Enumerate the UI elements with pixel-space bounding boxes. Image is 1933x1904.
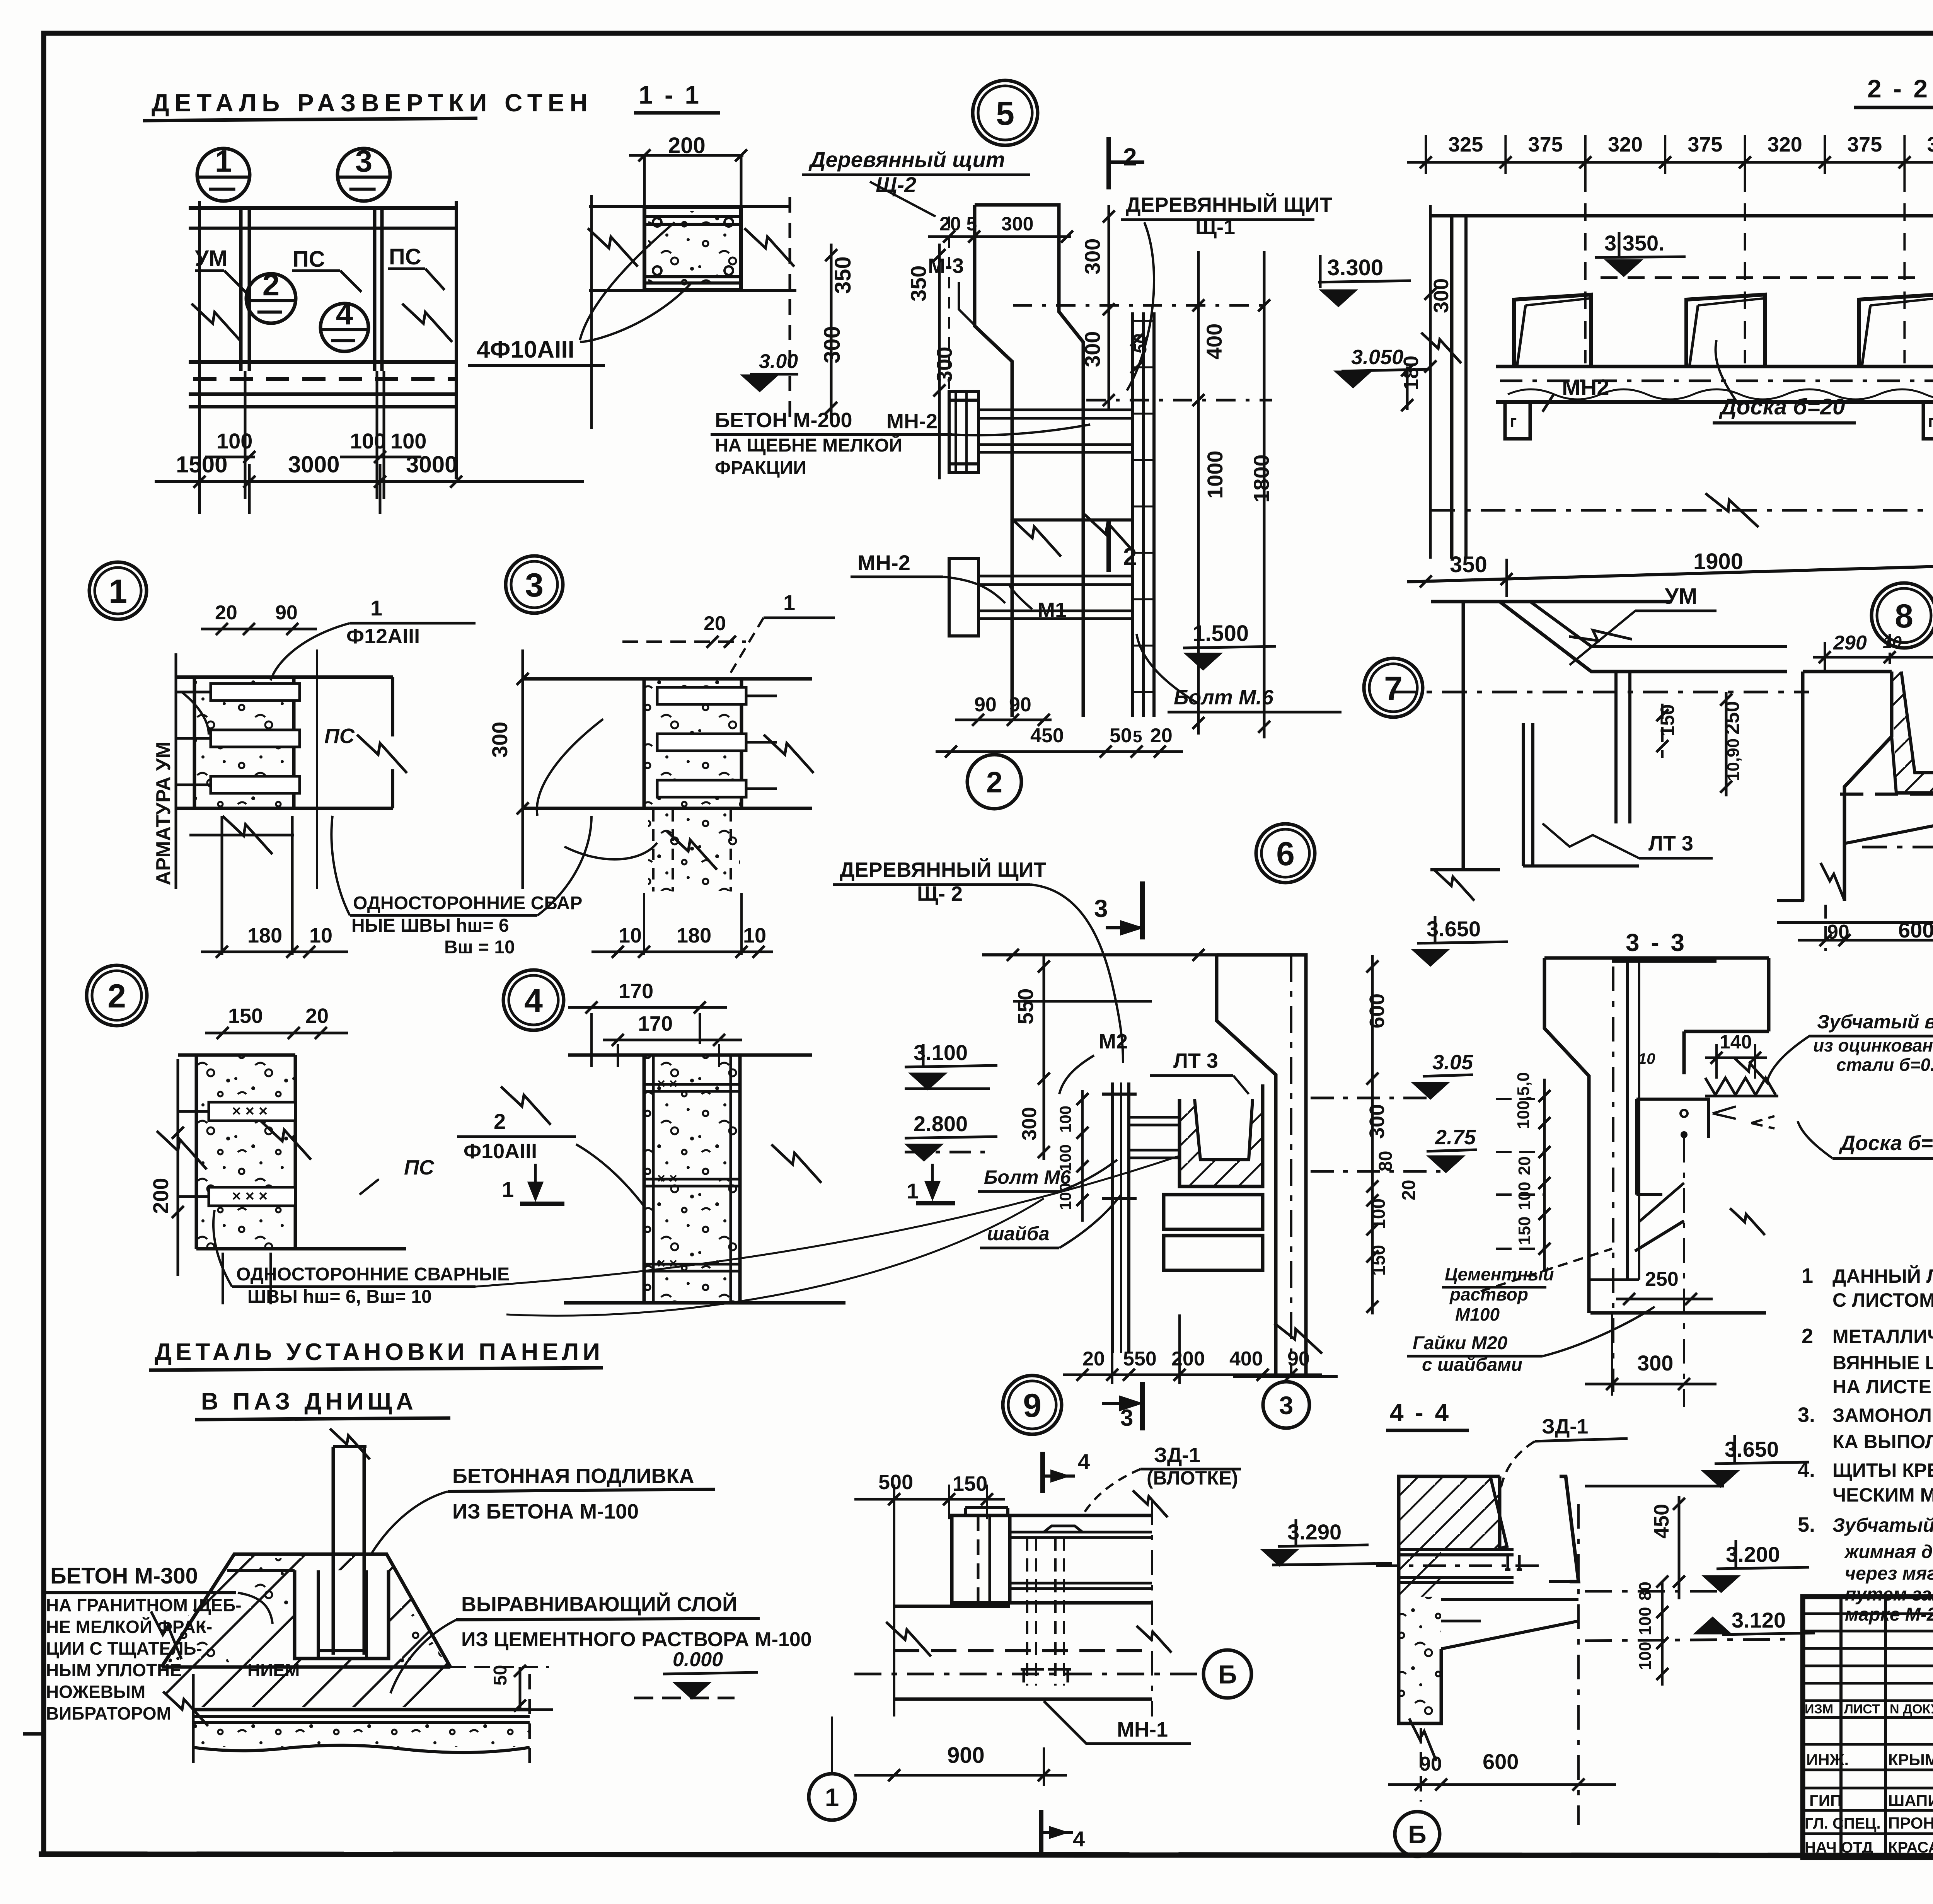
svg-text:2.800: 2.800 <box>914 1111 968 1136</box>
svg-text:Зубчатый водослив и: Зубчатый водослив и <box>1832 1514 1933 1536</box>
foundation slab band <box>193 1708 530 1711</box>
svg-text:ПС: ПС <box>324 724 355 748</box>
svg-text:ЧЕСКИМ МАРКАМ НА БОЛТАХ: ЧЕСКИМ МАРКАМ НА БОЛТАХ <box>1832 1484 1933 1506</box>
svg-text:1500: 1500 <box>176 452 227 477</box>
axis bubble 4 (plan) <box>320 303 368 351</box>
svg-text:5: 5 <box>996 95 1014 132</box>
detail circle 2 (section mark) <box>967 755 1021 809</box>
svg-text:ЗАМОНОЛИЧИВАНИЕ ТОРЦОВ ЛОТ-: ЗАМОНОЛИЧИВАНИЕ ТОРЦОВ ЛОТ- <box>1832 1405 1933 1426</box>
svg-text:7: 7 <box>1384 670 1403 707</box>
svg-text:300: 300 <box>1430 278 1453 313</box>
svg-text:ВИБРАТОРОМ: ВИБРАТОРОМ <box>46 1703 171 1723</box>
svg-text:550: 550 <box>1013 989 1038 1024</box>
detail circle 5 <box>973 80 1038 145</box>
svg-text:300: 300 <box>1080 331 1105 367</box>
detail3 joint strip concrete <box>644 680 741 808</box>
svg-text:× × ×: × × × <box>232 1103 268 1120</box>
section mark 4 top <box>1040 1452 1045 1493</box>
svg-text:3.050: 3.050 <box>1351 346 1403 369</box>
detail1 splice plates <box>211 684 300 701</box>
svg-text:КА ВЫПОЛНЯТЬ БЕТОНОМ М-200: КА ВЫПОЛНЯТЬ БЕТОНОМ М-200 <box>1832 1431 1933 1452</box>
svg-text:3.100: 3.100 <box>914 1040 968 1065</box>
detail1 ПС panel rect <box>294 807 393 810</box>
svg-text:ДЕРЕВЯННЫЙ ЩИТ: ДЕРЕВЯННЫЙ ЩИТ <box>840 858 1047 881</box>
svg-text:АРМАТУРА УМ: АРМАТУРА УМ <box>152 741 175 885</box>
detail4 leader from label <box>576 1144 644 1206</box>
detail8 channel left wall hatched <box>1892 672 1933 793</box>
detail2 joint strip concrete <box>196 1055 295 1249</box>
1-1 side extension lines <box>589 205 644 208</box>
svg-text:350: 350 <box>830 256 856 294</box>
svg-text:2: 2 <box>494 1109 506 1134</box>
detail4 break marks <box>771 1144 821 1183</box>
svg-text:300: 300 <box>1018 1107 1041 1140</box>
detail1 joint strip concrete <box>194 677 294 808</box>
svg-text:2: 2 <box>1123 543 1137 571</box>
svg-text:Деревянный щит: Деревянный щит <box>808 147 1005 172</box>
svg-text:ИЗ БЕТОНА М-100: ИЗ БЕТОНА М-100 <box>452 1500 639 1523</box>
svg-text:100: 100 <box>350 429 386 453</box>
svg-text:600: 600 <box>1898 918 1933 942</box>
svg-text:140: 140 <box>1720 1031 1752 1053</box>
axis bubble 1 (plan) <box>197 148 250 201</box>
4-4 water stop trapezoid <box>1485 1476 1507 1549</box>
svg-text:3000: 3000 <box>406 452 457 477</box>
svg-text:170: 170 <box>638 1012 673 1035</box>
svg-text:180: 180 <box>247 924 282 947</box>
svg-text:МН-2: МН-2 <box>886 410 938 433</box>
svg-text:20: 20 <box>1082 1348 1105 1370</box>
4-4 axis dash through boards <box>1376 1565 1546 1567</box>
svg-text:90: 90 <box>275 602 298 624</box>
svg-text:1: 1 <box>370 596 382 620</box>
svg-text:3.05: 3.05 <box>1432 1051 1473 1074</box>
svg-text:200: 200 <box>148 1178 173 1214</box>
svg-text:2: 2 <box>1123 143 1137 171</box>
detail2 lower extension <box>222 1253 224 1304</box>
3-3 bracket <box>1636 1099 1708 1138</box>
svg-text:20: 20 <box>1150 724 1173 747</box>
detail circle 2 <box>87 965 147 1026</box>
svg-text:ЛИСТ: ЛИСТ <box>1844 1702 1880 1716</box>
svg-text:УМ: УМ <box>195 246 227 271</box>
detail4 joint strip with boards <box>644 1055 740 1303</box>
svg-text:1 - 1: 1 - 1 <box>639 80 701 109</box>
detail circle 6 <box>1256 824 1315 883</box>
2-2 top dimension row <box>1407 161 1933 164</box>
svg-text:1: 1 <box>502 1177 514 1202</box>
svg-text:4.: 4. <box>1798 1458 1815 1481</box>
detail5 break in wall <box>1011 518 1061 556</box>
svg-text:шайба: шайба <box>987 1223 1050 1244</box>
4-4 wall hatched block <box>1399 1476 1500 1597</box>
svg-text:ИЗ ЦЕМЕНТНОГО РАСТВОРА М-100: ИЗ ЦЕМЕНТНОГО РАСТВОРА М-100 <box>461 1628 812 1651</box>
wall development plan outline <box>189 206 456 210</box>
foundation slab sides <box>192 1674 195 1763</box>
svg-text:Доска б=20: Доска б=20 <box>1718 394 1845 419</box>
3-3 right wall band <box>1768 958 1769 1313</box>
svg-text:М1: М1 <box>1038 598 1067 622</box>
svg-text:НА ЛИСТЕ КЖ- 10.: НА ЛИСТЕ КЖ- 10. <box>1832 1376 1933 1398</box>
svg-text:3: 3 <box>525 567 544 604</box>
svg-text:6: 6 <box>1276 835 1295 873</box>
svg-text:250: 250 <box>1645 1268 1679 1290</box>
detail7 wall corner outline <box>1431 600 1672 603</box>
svg-text:ИНЖ.: ИНЖ. <box>1806 1751 1849 1769</box>
detail8 break zigzag left bottom <box>1820 863 1844 900</box>
svg-text:НИЕМ: НИЕМ <box>247 1660 300 1680</box>
4-4 boards under wall <box>1399 1548 1514 1551</box>
svg-text:2.75: 2.75 <box>1435 1126 1476 1149</box>
1-1 break marks <box>588 228 638 266</box>
svg-text:ШВЫ hш= 6, Вш= 10: ШВЫ hш= 6, Вш= 10 <box>247 1287 432 1307</box>
svg-text:1: 1 <box>1802 1264 1813 1287</box>
svg-text:500: 500 <box>878 1471 913 1494</box>
svg-text:НА ГРАНИТНОМ ЩЕБ-: НА ГРАНИТНОМ ЩЕБ- <box>46 1595 242 1615</box>
axis line Б through detail9 <box>854 1673 1202 1676</box>
fold mark left edge <box>23 1732 44 1736</box>
detail6 formwork panel verticals <box>1111 1082 1114 1353</box>
svg-text:БЕТОННАЯ ПОДЛИВКА: БЕТОННАЯ ПОДЛИВКА <box>452 1464 694 1488</box>
svg-text:г: г <box>1928 412 1933 431</box>
svg-text:100: 100 <box>390 429 426 453</box>
4-4 bolts small <box>1507 1555 1509 1570</box>
detail2 slots with welds <box>209 1102 295 1121</box>
svg-text:4: 4 <box>524 982 543 1019</box>
svg-text:1: 1 <box>783 590 795 615</box>
2-2 board band hatched (доска) <box>1496 365 1933 368</box>
3-3 vertical panel lines <box>1626 961 1629 1280</box>
title block header row Изм Лист <box>1803 1716 1933 1719</box>
plan break marks <box>191 303 241 342</box>
detail9 right dash-dot extension <box>1151 1500 1153 1716</box>
svg-text:100: 100 <box>1636 1607 1655 1635</box>
detail4 top line <box>568 1053 812 1057</box>
detail3 break marks <box>764 735 813 773</box>
svg-text:300: 300 <box>1080 239 1105 274</box>
svg-text:400: 400 <box>1202 324 1226 360</box>
svg-text:М100: М100 <box>1455 1304 1500 1324</box>
svg-text:Ф12АIII: Ф12АIII <box>346 625 420 648</box>
svg-text:ФРАКЦИИ: ФРАКЦИИ <box>715 458 806 478</box>
svg-text:ГЛ. СПЕЦ.: ГЛ. СПЕЦ. <box>1805 1815 1881 1832</box>
svg-text:4 - 4: 4 - 4 <box>1390 1399 1451 1427</box>
detail3 leader curves <box>537 719 603 816</box>
svg-text:УМ: УМ <box>1665 584 1697 609</box>
svg-text:Цементный: Цементный <box>1445 1264 1554 1284</box>
svg-text:200: 200 <box>1171 1348 1205 1370</box>
axis bubble 2 (plan) <box>246 274 296 323</box>
foundation leader break <box>151 1611 182 1659</box>
detail2 bottom line <box>196 1247 406 1251</box>
detail4 horizontal joints <box>644 1083 740 1086</box>
3-3 sawtooth weir <box>1705 1078 1776 1095</box>
svg-text:Б: Б <box>1408 1820 1426 1849</box>
svg-text:МЕТАЛЛИЧЕСКИЕ МАРКИ И ДЕРЕ-: МЕТАЛЛИЧЕСКИЕ МАРКИ И ДЕРЕ- <box>1832 1326 1933 1347</box>
svg-text:150: 150 <box>953 1472 987 1495</box>
title block left rows thin <box>1803 1613 1933 1615</box>
svg-text:80: 80 <box>1376 1151 1396 1171</box>
svg-text:375: 375 <box>1528 133 1563 156</box>
svg-text:3: 3 <box>355 144 373 178</box>
svg-text:НОЖЕВЫМ: НОЖЕВЫМ <box>46 1682 145 1702</box>
svg-text:2 - 2: 2 - 2 <box>1867 74 1930 103</box>
plan vertical joint lines <box>239 208 243 371</box>
foundation hatch between mound and slab <box>166 1668 445 1707</box>
svg-text:3000: 3000 <box>288 452 339 477</box>
title block left small columns <box>1839 1597 1843 1858</box>
svg-text:10: 10 <box>619 924 642 947</box>
svg-text:3.650: 3.650 <box>1725 1437 1779 1461</box>
svg-text:100: 100 <box>216 429 252 453</box>
svg-text:320: 320 <box>1608 133 1643 156</box>
axis circle Б (4-4) <box>1395 1812 1440 1856</box>
2-2 formwork panels row <box>1514 295 1591 366</box>
section cut 3 (upper) <box>1140 881 1145 939</box>
svg-text:ИЗМ: ИЗМ <box>1805 1702 1833 1716</box>
svg-text:стали б=0.6: стали б=0.6 <box>1836 1055 1933 1075</box>
svg-text:180: 180 <box>677 924 711 947</box>
svg-text:8: 8 <box>1895 598 1913 635</box>
svg-text:ЛТ 3: ЛТ 3 <box>1173 1049 1218 1072</box>
svg-text:10: 10 <box>743 924 766 947</box>
detail8 sloping floor <box>1846 816 1933 843</box>
svg-text:900: 900 <box>947 1743 985 1768</box>
svg-text:М2: М2 <box>1099 1030 1128 1053</box>
svg-text:3.300: 3.300 <box>1327 255 1383 280</box>
svg-text:3: 3 <box>1279 1391 1294 1420</box>
svg-text:100: 100 <box>1515 1182 1534 1210</box>
svg-text:НЫМ УПЛОТНЕ: НЫМ УПЛОТНЕ <box>46 1660 182 1680</box>
svg-text:3.200: 3.200 <box>1726 1542 1780 1566</box>
detail1 horizontal axis lines <box>189 834 294 837</box>
svg-text:9: 9 <box>1023 1387 1042 1424</box>
plan bottom band <box>189 360 456 364</box>
svg-text:× × ×: × × × <box>232 1188 268 1205</box>
detail5 left formwork panel <box>949 391 978 472</box>
foundation mound hatching <box>162 1554 450 1667</box>
svg-text:20: 20 <box>305 1004 329 1028</box>
section mark 3 with arrow (right of 9) <box>1140 1382 1145 1430</box>
detail6 bolt between panel and channel <box>1129 1116 1180 1119</box>
svg-text:3: 3 <box>1094 895 1108 922</box>
1-1 rebar circles <box>653 218 661 227</box>
svg-text:Зубчатый водослив: Зубчатый водослив <box>1817 1011 1933 1033</box>
svg-text:3 - 3: 3 - 3 <box>1626 929 1687 956</box>
svg-text:ДЕРЕВЯННЫЙ ЩИТ: ДЕРЕВЯННЫЙ ЩИТ <box>1126 193 1333 216</box>
svg-text:320: 320 <box>1927 133 1933 156</box>
foundation mound outline <box>162 1554 450 1667</box>
svg-text:250: 250 <box>1721 701 1744 735</box>
title block outer <box>1803 1597 1933 1858</box>
svg-text:2: 2 <box>263 268 280 302</box>
detail7 break bottom <box>1434 870 1474 900</box>
svg-text:2: 2 <box>986 766 1002 799</box>
svg-text:20: 20 <box>704 612 726 635</box>
detail9 bolt hooks at axis <box>1021 1668 1044 1671</box>
detail9 slab below <box>894 1602 1152 1603</box>
svg-text:ВЫРАВНИВАЮЩИЙ СЛОЙ: ВЫРАВНИВАЮЩИЙ СЛОЙ <box>461 1592 737 1616</box>
2-2 МН2 hook left <box>1505 402 1530 439</box>
svg-text:20: 20 <box>215 602 237 624</box>
svg-text:Ф10АIII: Ф10АIII <box>464 1140 537 1163</box>
detail4 extension verticals <box>590 1013 593 1067</box>
svg-text:× ×: × × <box>657 1170 677 1186</box>
detail9 panel centre bump <box>1044 1526 1082 1532</box>
svg-text:90: 90 <box>1420 1753 1442 1775</box>
svg-text:2: 2 <box>107 978 126 1015</box>
svg-text:ЩИТЫ КРЕПИТЬ К МЕТАЛЛИ-: ЩИТЫ КРЕПИТЬ К МЕТАЛЛИ- <box>1832 1459 1933 1481</box>
svg-text:100: 100 <box>1056 1106 1074 1133</box>
detail3 splice plates <box>657 687 746 704</box>
svg-text:375: 375 <box>1688 133 1722 156</box>
svg-text:4: 4 <box>1078 1449 1090 1474</box>
svg-text:через мягкую прокладку: через мягкую прокладку <box>1845 1563 1933 1584</box>
plan dim line 1500 3000 3000 <box>155 480 584 483</box>
3-3 wall outline <box>1544 956 1769 960</box>
svg-text:жимная доска крепятся к лотку: жимная доска крепятся к лотку <box>1844 1542 1933 1562</box>
svg-text:50: 50 <box>1110 724 1132 747</box>
svg-text:ДЕТАЛЬ УСТАНОВКИ ПАНЕЛИ: ДЕТАЛЬ УСТАНОВКИ ПАНЕЛИ <box>155 1339 604 1365</box>
svg-text:150: 150 <box>1515 1217 1534 1245</box>
svg-text:10: 10 <box>1638 1050 1655 1067</box>
2-2 bottom dim line 350 1900 1900 350 <box>1407 551 1933 582</box>
plan joint extension below <box>244 371 247 499</box>
1-1 beam concrete section <box>644 207 741 290</box>
svg-text:20: 20 <box>1515 1156 1534 1175</box>
section mark 4 bottom <box>1039 1810 1043 1852</box>
detail3 top line <box>523 677 812 681</box>
detail5 lower bolt assembly <box>978 575 1133 578</box>
svg-text:1000: 1000 <box>1203 450 1227 499</box>
svg-text:ДЕТАЛЬ РАЗВЕРТКИ СТЕН: ДЕТАЛЬ РАЗВЕРТКИ СТЕН <box>152 89 593 117</box>
svg-text:4: 4 <box>1073 1827 1085 1851</box>
svg-text:В ПАЗ ДНИЩА: В ПАЗ ДНИЩА <box>201 1388 417 1415</box>
svg-text:НЫЕ ШВЫ hш= 6: НЫЕ ШВЫ hш= 6 <box>351 915 509 936</box>
svg-text:10: 10 <box>309 924 332 947</box>
svg-text:20: 20 <box>1399 1180 1419 1200</box>
svg-text:БЕТОН М-300: БЕТОН М-300 <box>50 1563 198 1589</box>
svg-text:ЗД-1: ЗД-1 <box>1154 1444 1200 1467</box>
detail circle 1 <box>89 562 147 619</box>
axis circle 1 (bottom left of detail9) <box>809 1774 855 1820</box>
svg-text:300: 300 <box>1001 213 1033 235</box>
detail9 bracket and board assembly <box>952 1515 1010 1603</box>
svg-text:90: 90 <box>1287 1348 1310 1370</box>
svg-text:С ЛИСТОМ КЖ- 1.: С ЛИСТОМ КЖ- 1. <box>1832 1289 1933 1311</box>
svg-text:НАЧ ОТД: НАЧ ОТД <box>1805 1839 1873 1856</box>
svg-text:1: 1 <box>215 144 232 178</box>
svg-text:Доска б=20: Доска б=20 <box>1839 1132 1933 1155</box>
detail3 lower concrete below line <box>523 807 812 810</box>
detail6 wall with taper (right) <box>1217 955 1306 1376</box>
detail7 axis dash <box>1392 691 1809 694</box>
svg-text:100: 100 <box>1636 1642 1655 1670</box>
4-4 dashed axis vertical <box>1577 1504 1580 1825</box>
svg-text:3.00: 3.00 <box>759 350 798 373</box>
svg-text:N ДОКУМ.: N ДОКУМ. <box>1890 1702 1933 1716</box>
detail7 formwork verticals <box>1522 723 1525 866</box>
svg-text:МН2: МН2 <box>1562 375 1609 400</box>
plan to section extension <box>583 464 584 482</box>
detail circle 7 <box>1364 658 1423 717</box>
4-4 big panel <box>1560 1476 1578 1582</box>
svg-text:1.500: 1.500 <box>1193 621 1249 646</box>
svg-text:0.000: 0.000 <box>673 1648 723 1671</box>
detail6 channel ЛТ3 cross-section <box>1180 1084 1263 1186</box>
svg-text:Гайки М20: Гайки М20 <box>1413 1333 1508 1353</box>
svg-text:ПС: ПС <box>404 1156 435 1179</box>
3-3 board band with arrows <box>1705 1095 1778 1098</box>
2-2 lower dash-dot line <box>1430 509 1933 512</box>
detail9 dashed bolt verticals <box>1026 1538 1028 1686</box>
svg-text:3.120: 3.120 <box>1732 1608 1786 1632</box>
svg-text:5.: 5. <box>1798 1513 1815 1536</box>
svg-text:Б: Б <box>1218 1660 1237 1689</box>
svg-text:325: 325 <box>1448 133 1483 156</box>
svg-text:300: 300 <box>488 722 512 758</box>
svg-text:ШАПИРО: ШАПИРО <box>1888 1791 1933 1810</box>
svg-text:320: 320 <box>1768 133 1802 156</box>
svg-text:350: 350 <box>906 266 931 302</box>
svg-text:ПС: ПС <box>293 247 325 272</box>
1-1 leader 4Ф10АIII <box>580 222 675 340</box>
svg-text:10: 10 <box>1883 633 1902 652</box>
svg-text:ПС: ПС <box>389 244 421 269</box>
svg-text:г: г <box>1510 412 1517 431</box>
detail5 right formwork panel Щ-1 <box>1131 312 1134 717</box>
svg-text:100,5,0: 100,5,0 <box>1514 1072 1533 1129</box>
svg-text:МН-1: МН-1 <box>1117 1718 1168 1741</box>
svg-text:1: 1 <box>109 573 127 610</box>
svg-text:300: 300 <box>1637 1351 1673 1375</box>
2-2 МН2 hook mid <box>1923 402 1933 439</box>
svg-text:ДАННЫЙ ЛИСТ СМ СОВМЕСТНО: ДАННЫЙ ЛИСТ СМ СОВМЕСТНО <box>1832 1265 1933 1287</box>
detail circle 3 <box>506 556 563 613</box>
svg-text:ОДНОСТОРОННИЕ СВАР: ОДНОСТОРОННИЕ СВАР <box>353 893 582 914</box>
detail2 break marks <box>157 1131 206 1169</box>
svg-text:20 5: 20 5 <box>939 213 977 235</box>
svg-text:КРАСАВИН: КРАСАВИН <box>1888 1839 1933 1856</box>
3-3 lower slopes <box>1635 1221 1684 1251</box>
svg-text:× ×: × × <box>657 1255 677 1271</box>
svg-text:ОДНОСТОРОННИЕ СВАРНЫЕ: ОДНОСТОРОННИЕ СВАРНЫЕ <box>236 1264 510 1285</box>
svg-text:4Ф10АIII: 4Ф10АIII <box>477 336 574 363</box>
svg-text:1: 1 <box>825 1783 839 1812</box>
axis circle Б (detail9) <box>1203 1650 1251 1698</box>
svg-text:3: 3 <box>1120 1405 1133 1431</box>
detail1 break mark right <box>357 735 407 773</box>
svg-text:МН-2: МН-2 <box>857 551 910 575</box>
detail5 bolt assembly upper <box>978 409 1133 411</box>
svg-text:ЗД-1: ЗД-1 <box>1542 1415 1588 1438</box>
detail6 top level line <box>982 953 1217 956</box>
svg-text:170: 170 <box>619 980 653 1003</box>
detail5 wall outline <box>975 205 1083 717</box>
svg-text:ЛТ 3: ЛТ 3 <box>1648 832 1693 855</box>
svg-text:М-3: М-3 <box>928 254 964 278</box>
svg-text:350: 350 <box>1450 552 1487 577</box>
svg-text:с шайбами: с шайбами <box>1422 1355 1522 1375</box>
section cut 2 (top) <box>1106 137 1111 189</box>
svg-text:400: 400 <box>1229 1348 1263 1370</box>
svg-text:5: 5 <box>1133 727 1142 746</box>
svg-text:150: 150 <box>228 1004 263 1028</box>
svg-text:2: 2 <box>1802 1324 1813 1348</box>
svg-text:1900: 1900 <box>1693 549 1743 574</box>
4-4 step and slope <box>1441 1598 1578 1601</box>
svg-text:ПРОНИН: ПРОНИН <box>1888 1814 1933 1832</box>
